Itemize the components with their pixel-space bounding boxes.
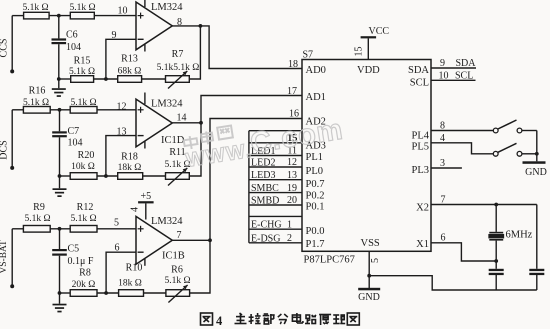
svg-text:PL1: PL1 [306,152,324,163]
svg-text:10: 10 [118,6,128,17]
wire rail2 mid [50,109,70,111]
svg-text:AD1: AD1 [306,92,326,103]
svg-text:18: 18 [288,59,298,70]
svg-text:6: 6 [115,243,120,254]
svg-text:LM324: LM324 [151,2,183,13]
wire R10-R6 [144,292,166,294]
node LED3 net label [249,170,302,181]
svg-text:X1: X1 [416,239,429,250]
svg-text:X2: X2 [416,203,429,214]
node LED1 net label [249,146,302,157]
svg-text:5.1k Ω: 5.1k Ω [70,98,96,108]
potentiometer R7 5.1k [157,49,200,89]
svg-text:5: 5 [114,218,119,229]
svg-text:AD0: AD0 [306,65,326,76]
wire R7 to output node [189,26,200,79]
svg-text:R15: R15 [74,56,91,67]
svg-text:17: 17 [287,86,297,97]
svg-text:R18: R18 [121,152,138,163]
wire to U1 pin10 [94,15,136,17]
wire to U3 pin5 [97,228,136,230]
wire R18-R11 [143,175,166,177]
svg-text:20: 20 [287,195,297,206]
wire U3 output [172,239,210,241]
switch S1 [493,120,522,133]
svg-text:1: 1 [287,219,292,230]
svg-text:LM324: LM324 [151,99,183,110]
svg-text:PL0: PL0 [306,166,324,177]
power VCC symbol [354,26,390,60]
wire net stack row y=216 [249,215,302,217]
svg-text:5.1k Ω: 5.1k Ω [164,276,190,286]
svg-text:R11: R11 [169,147,185,158]
svg-text:3: 3 [440,158,445,169]
svg-text:SDA: SDA [408,65,429,76]
op-amp U1 LM324 [136,2,172,50]
net stack left bus line [248,131,250,243]
resistor R12 5.1k [70,202,97,232]
capacitor load C (left) [489,261,504,290]
wire U2 output [172,122,201,124]
svg-text:P87LPC767: P87LPC767 [304,255,355,266]
resistor R13 68k [118,54,142,83]
svg-text:14: 14 [177,113,187,124]
svg-text:S7: S7 [303,50,314,61]
svg-text:5: 5 [370,258,381,263]
wire switch gnd drop [536,131,538,162]
wire X2 pin7 top rail [431,195,537,206]
op-amp U3 pins and labels [114,216,185,266]
wire top rail to right branch [536,205,538,269]
svg-text:R7: R7 [172,49,184,60]
crystal Y1 6MHz [489,205,533,262]
resistor R18 18k [118,152,143,180]
capacitor C6 [52,16,82,89]
svg-text:5.1k Ω: 5.1k Ω [69,67,95,77]
resistor 5.1k (rail1 first) [22,3,49,19]
svg-text:E-CHG: E-CHG [251,220,282,231]
ground GND below MCU [358,288,380,303]
svg-text:LED3: LED3 [251,170,275,181]
wire U1 pin9 feedback tap [106,39,136,79]
junction crystal bottom [494,259,498,263]
svg-text:7: 7 [177,230,182,241]
svg-text:9: 9 [440,58,445,69]
junction row1 left [57,77,61,81]
svg-text:C5: C5 [68,244,80,255]
resistor R10 18k [118,263,143,297]
ground GND of switches [523,161,547,178]
junction rail3/C5 [58,227,62,231]
svg-text:C.com: C.com [248,114,345,160]
op-amp U1 pins and labels [112,0,184,52]
wire row2 to R20 [60,175,71,177]
svg-text:LM324: LM324 [151,216,183,227]
node SCL net [431,71,476,82]
junction row3 left [58,291,62,295]
wire U3 output to MCU AD2 pin16 [210,119,302,241]
svg-text:19: 19 [287,183,297,194]
watermark [183,114,346,172]
svg-text:R20: R20 [78,150,95,161]
junction row3 / pin6 branch [104,291,108,295]
svg-text:GND: GND [525,167,547,178]
wire rail3 left [12,228,23,230]
resistor R9 5.1k [23,202,50,232]
wire net stack row y=131 [249,130,302,132]
svg-text:4: 4 [216,314,223,328]
wire PL5 pin4 to switch S2 [431,133,493,154]
wire U3 pin6 feedback tap [106,252,136,293]
svg-text:C7: C7 [68,126,80,137]
MCU U4 P87LPC767 body [302,50,431,266]
junction row2 left [58,174,62,178]
op-amp U2 LM324 IC1D [136,99,172,147]
svg-text:VSS: VSS [361,238,380,249]
node SMBC net label [249,183,302,194]
svg-text:15: 15 [354,47,365,57]
svg-text:R16: R16 [29,86,46,97]
capacitor C7 [52,110,82,189]
svg-text:PL4: PL4 [411,130,429,141]
wire to U2 pin12 [97,109,136,111]
resistor R20 10k [70,150,97,179]
svg-text:2: 2 [287,233,292,244]
node E-DSG net label [249,233,302,244]
junction U1 output [199,24,203,28]
caption text 图4 主控部分电路原理图 [201,313,360,328]
node E-CHG net label [249,219,302,230]
junction U3 output [208,238,212,242]
wire row3 to R8 [60,292,71,294]
resistor R16 5.1k [23,86,50,114]
svg-text:SCL: SCL [410,78,429,89]
svg-text:8: 8 [440,121,445,132]
svg-text:12: 12 [117,102,127,113]
wire VSS pin5 to ground [369,251,381,288]
wire S2 to gnd rail [522,153,537,155]
svg-text:P1.7: P1.7 [306,239,325,250]
svg-text:18k Ω: 18k Ω [118,279,142,289]
svg-text:7: 7 [441,195,446,206]
node DCS input net [0,110,14,170]
svg-text:E-DSG: E-DSG [251,233,280,244]
wire R13-R7 [142,78,166,80]
svg-text:R6: R6 [171,265,183,276]
svg-text:20k Ω: 20k Ω [72,280,96,290]
svg-text:GND: GND [358,292,380,303]
junction rail1/C6 [57,14,61,18]
wire U1 output to MCU AD0 pin18 [200,26,302,69]
svg-text:104: 104 [68,138,83,149]
svg-text:18k Ω: 18k Ω [118,163,142,173]
junction row1 / pin9 branch [104,77,108,81]
svg-text:IC1B: IC1B [162,251,185,262]
svg-text:DCS: DCS [0,140,10,159]
junction U2 output [199,121,203,125]
ground below C5 [53,304,67,306]
wire PL4 pin8 to switch S1 [431,121,493,132]
svg-text:10k Ω: 10k Ω [71,162,95,172]
junction rail2/C7 [58,108,62,112]
wire rail2 left [12,109,23,111]
wire U1 output [172,25,200,27]
wire R11 to output node [189,123,201,176]
svg-text:+5: +5 [140,191,151,202]
svg-text:PL3: PL3 [411,165,429,176]
svg-text:5.1k Ω: 5.1k Ω [69,3,95,13]
svg-text:104: 104 [66,42,81,53]
svg-text:VS-BAT: VS-BAT [0,240,9,273]
node CCS input net [0,16,14,74]
svg-text:5.1k Ω: 5.1k Ω [23,98,49,108]
wire row1 to R15 [59,78,71,80]
capacitor C5 [52,229,94,304]
svg-text:10: 10 [439,71,449,82]
capacitor load C (right) [529,269,544,290]
svg-text:13: 13 [287,170,297,181]
svg-text:5.1k Ω: 5.1k Ω [24,214,50,224]
potentiometer R6 5.1k [164,265,190,303]
power +5 symbol for U3 [130,191,154,220]
svg-text:C6: C6 [66,30,78,41]
op-amp U3 LM324 IC1B [136,216,172,264]
wire R20-R18 [97,175,118,177]
svg-text:SMBD: SMBD [251,196,279,207]
ground below C6 [52,88,66,90]
node LED2 net label [249,157,302,168]
ground below C7 [53,188,67,190]
junction switches gnd node [535,152,539,156]
potentiometer R11 5.1k [164,147,190,186]
svg-text:5.1k5.1k Ω: 5.1k5.1k Ω [157,63,200,73]
wire X1 pin6 to crystal [431,233,496,262]
svg-text:R10: R10 [126,263,143,274]
wire R8-R10 [97,292,119,294]
junction crystal top [494,203,498,207]
wire rail1 left [12,15,23,17]
node SMBD net label [249,195,302,206]
resistor R8 20k [70,268,97,297]
svg-text:5.1k Ω: 5.1k Ω [22,3,48,13]
svg-text:0.1μ F: 0.1μ F [68,256,94,267]
svg-text:R12: R12 [77,202,94,213]
wire R6 to output node [190,240,210,293]
svg-text:R8: R8 [79,268,91,279]
wire rail3 mid [50,228,70,230]
wire rail1 mid [49,15,70,17]
wire U2 output to MCU AD1 pin17 [201,96,302,123]
svg-text:P0.1: P0.1 [306,201,325,212]
svg-text:IC1D: IC1D [161,135,185,146]
junction row2 / pin13 branch [104,174,108,178]
MCU right pin labels [408,65,430,250]
wire R15-R13 [94,78,118,80]
svg-text:68k Ω: 68k Ω [118,67,142,77]
svg-text:CCS: CCS [0,39,10,58]
resistor 5.1k (rail2 second) [70,98,97,113]
svg-text:VDD: VDD [357,65,380,76]
svg-text:4: 4 [440,133,445,144]
MCU left pin labels [306,65,326,250]
svg-text:6MHz: 6MHz [506,230,533,241]
op-amp U2 pins and labels [117,93,187,149]
svg-text:R13: R13 [121,54,138,65]
svg-text:12: 12 [287,157,297,168]
svg-text:VCC: VCC [369,26,390,37]
svg-text:SMBC: SMBC [251,183,279,194]
svg-text:SDA: SDA [456,58,477,69]
wire PL3 pin3 stub [431,158,462,169]
junction VSS node [367,274,371,278]
resistor R15 5.1k [69,56,95,83]
svg-text:R9: R9 [33,202,45,213]
wire U2 pin13 feedback tap [106,136,136,176]
svg-text:PL5: PL5 [411,142,429,153]
svg-text:SCL: SCL [455,71,473,82]
svg-text:16: 16 [289,109,299,120]
svg-text:9: 9 [112,30,117,41]
svg-text:13: 13 [117,127,127,138]
wire oscillator bottom rail to VSS [369,276,537,290]
wire net stack row y=143 [249,133,302,144]
node SDA net [431,58,476,69]
svg-text:P0.0: P0.0 [306,226,325,237]
svg-text:P0.2: P0.2 [306,190,325,201]
node VS-BAT input net [0,229,14,288]
resistor 5.1k (rail1 second) [69,3,95,19]
svg-text:6: 6 [441,233,446,244]
wire S1 to gnd rail [522,130,537,132]
switch S2 [493,143,522,156]
svg-text:P0.7: P0.7 [306,179,325,190]
svg-text:4: 4 [130,207,141,212]
svg-text:5.1k Ω: 5.1k Ω [70,214,96,224]
